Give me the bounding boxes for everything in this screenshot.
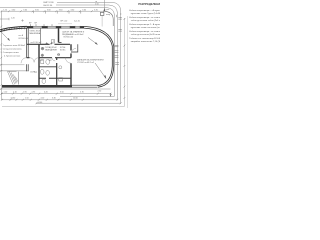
svg-text:Кабели захранващи - от главно: Кабели захранващи - от главно [129, 31, 160, 33]
svg-text:3.30: 3.30 [94, 10, 98, 12]
svg-text:3. Санитарен възел: 3. Санитарен възел [1, 52, 20, 54]
svg-text:РАЗПРЕДЕЛЕНИ: РАЗПРЕДЕЛЕНИ [138, 2, 160, 6]
svg-text:24.60: 24.60 [38, 102, 43, 104]
svg-text:ВН 12.50: ВН 12.50 [44, 5, 54, 7]
svg-text:12.60: 12.60 [73, 98, 78, 100]
svg-text:КОТА 0.00: КОТА 0.00 [19, 37, 30, 40]
svg-text:3.60: 3.60 [23, 10, 27, 12]
svg-text:4. Кухненски бокс: 4. Кухненски бокс [4, 55, 20, 57]
svg-text:КОТА 0.00: КОТА 0.00 [64, 36, 75, 39]
svg-text:РАЗДАВАНЕ пл.48.6м2: РАЗДАВАНЕ пл.48.6м2 [62, 33, 84, 36]
svg-text:аварийно осветление 7,14 (36W): аварийно осветление 7,14 (36W) [131, 40, 160, 43]
svg-text:1.20: 1.20 [3, 10, 7, 12]
svg-text:3.60: 3.60 [47, 10, 51, 12]
svg-text:БОКС: БОКС [60, 50, 66, 52]
svg-text:4.20: 4.20 [44, 92, 48, 94]
svg-text:СТОКИ пл.68.2 м2: СТОКИ пл.68.2 м2 [77, 62, 95, 64]
svg-text:щрангове начин контакти (по сх: щрангове начин контакти (по сх [131, 27, 160, 29]
svg-text:5.70: 5.70 [80, 92, 84, 94]
svg-text:ВНР 12.80: ВНР 12.80 [44, 2, 55, 4]
svg-text:WC: WC [49, 60, 53, 62]
svg-text:3.60: 3.60 [71, 10, 75, 12]
svg-text:3.60: 3.60 [35, 10, 39, 12]
svg-text:2.10: 2.10 [13, 92, 17, 94]
svg-text:2.50: 2.50 [95, 4, 99, 6]
svg-text:2. Склад към магазина: 2. Склад към магазина [1, 48, 23, 50]
svg-text:вх. А: вх. А [19, 34, 24, 37]
svg-text:1.50: 1.50 [25, 98, 29, 100]
svg-text:1.20: 1.20 [4, 92, 8, 94]
svg-text:3.50: 3.50 [60, 92, 64, 94]
svg-text:1.95: 1.95 [32, 92, 36, 94]
svg-text:WC: WC [40, 60, 44, 62]
svg-text:2.50: 2.50 [98, 91, 102, 93]
svg-text:1.90: 1.90 [23, 92, 27, 94]
svg-text:Табелки със светилници В 2х36: Табелки със светилници В 2х36 [129, 38, 160, 40]
svg-text:3.60: 3.60 [12, 10, 16, 12]
svg-text:трот.: трот. [106, 9, 111, 11]
svg-text:14.60: 14.60 [11, 98, 16, 100]
svg-text:табло до контакти (4x35 кв.мм): табло до контакти (4x35 кв.мм) [131, 34, 160, 36]
svg-text:3.30: 3.30 [52, 98, 56, 100]
svg-text:Кабели захранващи г - А щранго: Кабели захранващи г - А щрангов [129, 9, 160, 12]
svg-text:щрангове начин Група (14x36 кв: щрангове начин Група (14x36 кв. [131, 13, 160, 15]
svg-text:СКЛАД КЪМ: СКЛАД КЪМ [45, 46, 57, 49]
svg-text:СКЛАД: СКЛАД [30, 71, 37, 74]
svg-text:МАГАЗИНА: МАГАЗИНА [30, 32, 41, 35]
svg-text:ЗАВЕДЕНИЕ: ЗАВЕДЕНИЕ [45, 48, 58, 51]
svg-text:ВР 1.20: ВР 1.20 [61, 21, 68, 23]
svg-text:ОФИС КЪМ: ОФИС КЪМ [30, 29, 41, 32]
svg-text:4.20: 4.20 [41, 98, 45, 100]
svg-text:1. Търговска зала 48.30м2: 1. Търговска зала 48.30м2 [1, 45, 26, 47]
svg-text:пл.12.40 м2: пл.12.40 м2 [31, 42, 43, 44]
svg-text:Кабели захранващи 2 - А щранг: Кабели захранващи 2 - А щранг [129, 23, 160, 26]
svg-text:САЛОН ЗА ХРАНЕНЕ И: САЛОН ЗА ХРАНЕНЕ И [62, 30, 85, 33]
svg-text:3.60: 3.60 [82, 10, 86, 12]
svg-text:тр: тр [95, 1, 97, 3]
svg-text:3.60: 3.60 [59, 10, 63, 12]
svg-text:Кабели захранващи - от главно: Кабели захранващи - от главно [129, 17, 160, 19]
svg-text:табло до етажни табла (2x4 кв): табло до етажни табла (2x4 кв) [131, 20, 160, 22]
svg-text:МАГАЗИН ЗА ХРАНИТЕЛНИ: МАГАЗИН ЗА ХРАНИТЕЛНИ [77, 59, 104, 62]
svg-text:h=2.20: h=2.20 [74, 21, 80, 23]
svg-text:1.20: 1.20 [11, 18, 15, 20]
